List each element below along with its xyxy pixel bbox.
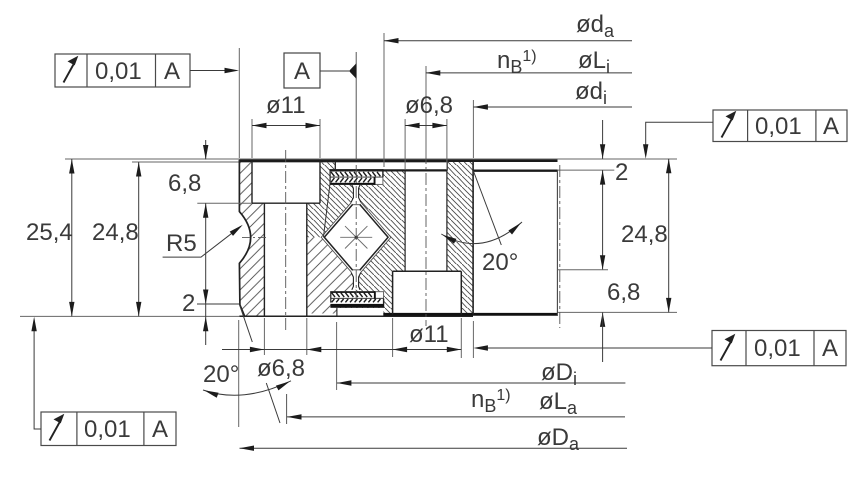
adjoining structure right edge (556, 170, 558, 316)
bottom face line (239, 315, 473, 317)
recessed face extension for dim 2 (558, 169, 615, 171)
top spacer stem (351, 185, 361, 205)
recess under bottom seal (337, 308, 383, 316)
dim 24,8 right (668, 159, 670, 313)
svg-text:20°: 20° (482, 249, 518, 276)
raceway groove (white gothic diamond) (321, 201, 391, 274)
dim 6,8 left (counterbore depth) (205, 140, 207, 160)
bottom seal (330, 291, 384, 308)
outer ring bolt hole edges (263, 203, 265, 316)
ring gap boundary at top seal (323, 185, 330, 238)
svg-text:A: A (822, 335, 838, 362)
inner ring section (backslash hatch) (307, 161, 473, 314)
inner ring hole centerline (425, 152, 427, 326)
svg-text:6,8: 6,8 (168, 170, 201, 197)
top face thick line (239, 160, 557, 163)
top seal (330, 169, 384, 185)
roller cross mark (340, 226, 372, 248)
dim o6,8 top extensions (404, 119, 406, 170)
dim Li extension (425, 66, 427, 152)
bottom spacer stem (351, 270, 361, 290)
svg-text:20°: 20° (203, 361, 239, 388)
dim o11 top line (252, 125, 320, 127)
outer ring left edge with R5 groove and bevel (239, 160, 250, 316)
svg-text:25,4: 25,4 (26, 219, 73, 246)
bottom extension left (20, 315, 239, 317)
outer ring lower wedge (slash hatch) (307, 237, 353, 313)
outer ring hole centerline (285, 150, 287, 330)
bottom-left frame (31, 317, 176, 446)
inner ring counterbore white (393, 271, 462, 313)
svg-text:24,8: 24,8 (92, 219, 139, 246)
svg-text:øLi: øLi (578, 47, 610, 77)
second top extension line (132, 161, 448, 163)
inner ring bore edge (472, 161, 474, 315)
top lip edge (334, 161, 336, 170)
dim oDi (337, 382, 626, 384)
dim odi line (473, 106, 632, 108)
svg-text:6,8: 6,8 (607, 279, 640, 306)
svg-text:R5: R5 (166, 230, 197, 257)
inner ring counterbore outline (393, 271, 462, 314)
svg-text:0,01: 0,01 (754, 335, 801, 362)
dim oDa (240, 447, 628, 449)
bottom face thick right portion (383, 313, 557, 316)
svg-text:ø11: ø11 (409, 321, 449, 348)
step under bottom seal (336, 308, 338, 316)
roller centerline (355, 165, 357, 300)
svg-text:2: 2 (182, 290, 195, 317)
extension line bearing left edge up (238, 48, 240, 158)
dim da extension (383, 33, 385, 167)
top recess gap white (336, 159, 447, 170)
dim line o6,8 / o11 bottom shared (222, 349, 461, 351)
dim oda line (384, 40, 632, 42)
dim 2 bottom left (203, 290, 208, 305)
adjoining structure top face thick (473, 169, 558, 171)
dim 25,4 (71, 159, 73, 316)
svg-text:A: A (294, 58, 310, 85)
svg-text:A: A (164, 58, 180, 85)
dim o11 top extensions (251, 119, 253, 158)
svg-text:A: A (823, 113, 839, 140)
dim o6,8 top line (405, 125, 447, 127)
recess side edge (446, 161, 448, 171)
dim di extension (472, 100, 474, 158)
svg-text:0,01: 0,01 (95, 58, 142, 85)
inner ring hole edges (404, 170, 406, 271)
groove centerline dash (242, 236, 268, 238)
svg-text:A: A (152, 416, 168, 443)
svg-text:ø11: ø11 (266, 92, 306, 119)
counterbore outline (252, 161, 320, 203)
dim 2 top right (602, 120, 604, 159)
outer ring hole centerline tick below (286, 394, 288, 424)
top-right frame (643, 110, 847, 159)
svg-text:0,01: 0,01 (84, 416, 131, 443)
inner ring bolt hole white (405, 170, 447, 271)
svg-text:øDi: øDi (541, 359, 577, 389)
dim oLa (287, 416, 625, 418)
svg-text:0,01: 0,01 (755, 113, 802, 140)
svg-text:ø6,8: ø6,8 (257, 355, 305, 382)
svg-text:ø6,8: ø6,8 (405, 92, 453, 119)
dim oLi line (426, 72, 632, 74)
recessed face thick (seal groove floor) (330, 169, 448, 171)
extension lines below (238, 320, 240, 427)
bottom-right frame (473, 331, 846, 366)
counterbore bottom extension to left (197, 202, 252, 204)
outer ring main left body (slash hatch) (239, 161, 264, 317)
svg-text:24,8: 24,8 (621, 221, 668, 248)
datum extension line (355, 52, 357, 160)
bottom extension right (558, 311, 678, 313)
svg-text:2: 2 (615, 159, 628, 186)
top face thin extension line (65, 158, 677, 160)
svg-text:ødi: ødi (575, 78, 607, 108)
roller (diamond) (324, 204, 388, 270)
dim 24,8 left (138, 162, 140, 316)
structure centerline right (559, 165, 561, 328)
dim 6,8 right (600, 255, 605, 270)
top-left frame (55, 54, 239, 87)
